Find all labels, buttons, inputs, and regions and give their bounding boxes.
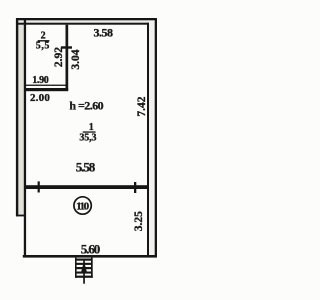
svg-text:35,3: 35,3: [79, 133, 96, 144]
room 2 east wall: [66, 25, 69, 91]
svg-text:5.58: 5.58: [76, 160, 96, 175]
svg-text:5.60: 5.60: [81, 242, 101, 257]
staircase arrow head: [81, 261, 87, 273]
staircase left side: [75, 258, 77, 278]
staircase bottom edge: [75, 276, 93, 278]
dimension line under 1.90: [24, 85, 67, 86]
svg-text:3.04: 3.04: [70, 49, 82, 69]
staircase right side: [91, 258, 93, 278]
dimension tick on partition wall right: [134, 182, 136, 193]
svg-text:3.25: 3.25: [133, 211, 145, 231]
staircase arrow shaft: [83, 259, 85, 284]
left wall inner line: [24, 18, 26, 257]
paper background: [0, 0, 175, 300]
svg-text:2.00: 2.00: [30, 92, 50, 104]
top wall inner line: [16, 23, 149, 25]
top wall fill: [17, 19, 149, 24]
dimension tick on partition wall left: [38, 181, 40, 192]
svg-text:3.58: 3.58: [93, 26, 113, 40]
room 2 south wall: [24, 88, 68, 91]
svg-text:110: 110: [76, 200, 90, 212]
staircase step 3: [76, 267, 91, 269]
room 1 fraction line: [83, 131, 96, 132]
svg-text:5,5: 5,5: [36, 40, 50, 51]
bottom wall: [23, 255, 157, 258]
apartment number circle: [74, 197, 91, 214]
svg-text:2.92: 2.92: [53, 47, 65, 67]
partition wall: [25, 185, 147, 189]
right wall inner line: [147, 23, 149, 258]
right wall outer line: [155, 18, 157, 257]
svg-text:7.42: 7.42: [136, 96, 148, 116]
svg-text:h =2.60: h =2.60: [69, 98, 103, 112]
right wall fill: [148, 20, 156, 257]
left wall fill: [17, 19, 25, 216]
svg-text:1: 1: [89, 122, 94, 133]
staircase step 4: [76, 272, 91, 274]
dimension tick on room 2 east wall: [61, 46, 72, 48]
top wall outer line: [16, 18, 157, 20]
staircase step 2: [76, 263, 91, 265]
left wall end cap: [16, 215, 26, 217]
left wall outer line: [16, 18, 18, 216]
svg-text:1.90: 1.90: [32, 75, 49, 86]
staircase step 1: [76, 259, 91, 261]
room 2 fraction line: [38, 40, 50, 41]
